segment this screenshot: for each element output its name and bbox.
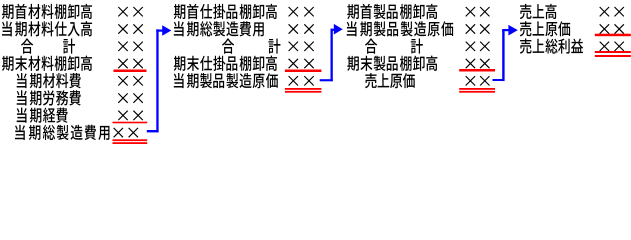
WIP: cost of goods manufactured label	[174, 73, 278, 88]
WIP: total label go	[222, 39, 234, 54]
WIP: beginning inventory label	[174, 4, 277, 19]
materials cost label	[17, 73, 81, 88]
red double underline 2 under gross profit	[595, 55, 631, 57]
FG: cost of sales label	[365, 73, 415, 88]
materials: purchases label	[2, 21, 92, 36]
overhead cost label	[17, 108, 68, 123]
value xx: total manufacturing cost amount	[114, 128, 138, 137]
FG: cost of goods manufactured label	[347, 21, 453, 36]
value xx: materials total amount	[118, 42, 142, 51]
red double underline 1 under total manufacturing cost	[113, 139, 148, 141]
value xx: overhead amount	[118, 111, 142, 120]
value xx: WIP total mfg cost amount	[289, 24, 314, 33]
materials: total label go	[21, 39, 33, 54]
value xx: cost of goods manufactured amount	[289, 76, 314, 85]
value xx: FG ending amount	[466, 59, 490, 68]
value xx: materials beginning amount	[118, 7, 142, 16]
PL: cost of sales label	[520, 21, 570, 36]
value xx: cost of sales amount	[466, 76, 490, 85]
WIP: total manufacturing cost label	[174, 21, 264, 36]
value xx: labor cost amount	[118, 93, 142, 102]
red double underline 1 under cogm amount	[285, 88, 322, 90]
value xx: WIP beginning amount	[289, 7, 314, 16]
value xx: cost of sales amount PL	[600, 24, 624, 33]
value xx: FG cogm amount	[466, 24, 490, 33]
red underline under PL cost of sales amount	[595, 34, 631, 37]
value xx: gross profit amount	[600, 42, 624, 51]
value xx: materials purchases amount	[118, 24, 142, 33]
value xx: WIP total amount	[289, 42, 314, 51]
WIP: ending inventory label	[174, 56, 277, 71]
labor cost label	[17, 90, 81, 105]
red rule above total manufacturing cost amount	[113, 122, 148, 124]
blue arrow 2: cost of goods manufactured to FG account	[320, 24, 343, 81]
FG: ending inventory label	[347, 56, 437, 71]
value xx: WIP ending amount	[289, 59, 314, 68]
value xx: FG total amount	[466, 42, 490, 51]
total manufacturing cost label	[15, 125, 109, 140]
red underline under FG ending amount	[459, 69, 495, 72]
red double underline 2 under cost of sales amount	[459, 91, 495, 93]
red double underline 1 under cost of sales amount	[459, 88, 495, 90]
blue arrow 1: total manufacturing cost to WIP account	[147, 25, 172, 132]
red double underline 1 under gross profit	[595, 51, 631, 53]
FG: total label go	[365, 39, 377, 54]
materials: total label kei	[63, 39, 75, 54]
FG: total label kei	[411, 39, 423, 54]
value xx: materials ending amount	[118, 59, 142, 68]
red double underline 2 under total manufacturing cost	[113, 142, 148, 144]
WIP: total label kei	[268, 39, 280, 54]
PL: gross profit label	[520, 38, 583, 53]
red double underline 2 under cogm amount	[285, 91, 322, 93]
value xx: materials cost amount	[118, 76, 142, 85]
PL: sales label	[520, 4, 557, 19]
value xx: sales amount	[600, 7, 624, 16]
FG: beginning inventory label	[347, 4, 437, 19]
materials: beginning inventory label	[2, 4, 92, 19]
red underline under WIP ending amount	[285, 70, 322, 73]
value xx: FG beginning amount	[466, 7, 490, 16]
materials: ending inventory label	[2, 56, 92, 71]
blue arrow 3: cost of sales to income statement	[493, 25, 518, 81]
red underline under materials ending amount	[114, 70, 147, 73]
